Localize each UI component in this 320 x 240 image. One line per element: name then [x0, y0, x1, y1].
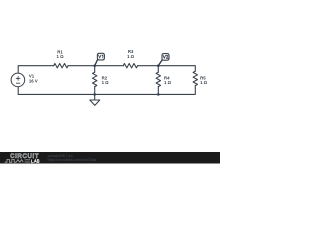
ground: [90, 94, 100, 105]
resistor R3: [123, 64, 137, 68]
label R5 value: [200, 80, 208, 85]
wire bottom rail: [18, 86, 158, 94]
label R2 name: [102, 76, 108, 81]
wire R4 to bottom rail: [157, 87, 159, 95]
label R1 name: [57, 50, 63, 55]
resistor R4: [156, 72, 160, 86]
flag text V1: [99, 55, 103, 58]
footer bar: [0, 152, 220, 164]
label V1 value: [29, 79, 38, 84]
wire R3 to node V2: [138, 65, 159, 67]
flag text V2: [163, 55, 168, 58]
label R2 value: [102, 80, 110, 85]
wire R4 branch: [157, 66, 159, 73]
footer text line 2: [48, 158, 97, 162]
svg-text:1 Ω: 1 Ω: [200, 80, 208, 85]
svg-text:1 Ω: 1 Ω: [127, 54, 135, 59]
svg-text:16 V: 16 V: [29, 79, 38, 84]
resistor R2: [93, 72, 97, 86]
junction node at V1 top: [93, 64, 96, 67]
label R4 value: [164, 80, 172, 85]
svg-text:1 Ω: 1 Ω: [102, 80, 110, 85]
CircuitLab logo: [5, 153, 40, 163]
svg-text:1 Ω: 1 Ω: [56, 54, 64, 59]
label R4 name: [164, 76, 170, 81]
label R5 name: [200, 76, 206, 81]
wire R2 to bottom rail: [94, 87, 96, 95]
footer text line 1: [48, 154, 73, 158]
wire R5 bottom to bottom rail: [158, 86, 195, 95]
resistor R5: [193, 71, 197, 85]
wire top-left from source to R1: [18, 66, 54, 73]
node flag V1: [95, 53, 105, 65]
svg-text:http://circuitlab.com/ce67dbd: http://circuitlab.com/ce67dbd: [48, 158, 97, 162]
label R3 name: [128, 49, 134, 54]
voltage source V1: [11, 73, 25, 87]
wire R2 branch: [94, 66, 96, 73]
svg-text:1 Ω: 1 Ω: [164, 80, 172, 85]
label R1 value: [56, 54, 64, 59]
wire R1 to node V1: [68, 65, 95, 67]
wire node V2 to top-right corner: [158, 66, 195, 72]
wire node V1 to R3: [95, 65, 124, 67]
junction node at R4 bottom: [157, 93, 160, 96]
junction node at V2 top: [157, 64, 160, 67]
label R3 value: [127, 54, 135, 59]
node flag V2: [158, 54, 169, 66]
label V1 name: [29, 74, 35, 79]
resistor R1: [54, 64, 68, 68]
junction node at R2 bottom: [93, 93, 96, 96]
